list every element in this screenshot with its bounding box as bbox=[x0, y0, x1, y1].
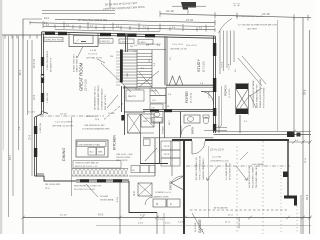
line segment bbox=[138, 23, 140, 27]
line segment bbox=[159, 24, 161, 28]
left dim line x23 bbox=[22, 19, 24, 234]
path element bbox=[192, 141, 205, 154]
line segment bbox=[307, 15, 309, 21]
svg-text:36-0: 36-0 bbox=[90, 152, 94, 154]
box bbox=[97, 148, 105, 156]
line segment bbox=[21, 216, 25, 220]
right dim x303 bbox=[302, 18, 304, 235]
line segment bbox=[169, 27, 171, 31]
line segment bbox=[42, 10, 115, 12]
svg-text:STOR: STOR bbox=[164, 154, 170, 156]
svg-text:W/L ROSG SZN: W/L ROSG SZN bbox=[45, 184, 61, 186]
svg-text:TO DESIGN DRAWING SPEC: TO DESIGN DRAWING SPEC bbox=[82, 128, 111, 131]
line segment bbox=[87, 22, 89, 26]
line segment bbox=[123, 77, 137, 79]
line segment bbox=[138, 183, 152, 196]
svg-text:2-3052 SH: 2-3052 SH bbox=[40, 123, 42, 133]
svg-text:DVL AIR: DVL AIR bbox=[100, 195, 108, 198]
svg-text:PT POST 6X6 INSIDE: PT POST 6X6 INSIDE bbox=[264, 87, 266, 108]
mud south wall bbox=[129, 212, 157, 214]
line segment bbox=[151, 50, 153, 88]
line segment bbox=[100, 169, 104, 177]
svg-text:PORCH: PORCH bbox=[224, 85, 228, 96]
bottom vertical x120 bbox=[119, 182, 121, 234]
line segment bbox=[16, 35, 18, 39]
box bbox=[77, 142, 106, 147]
line segment bbox=[166, 84, 214, 86]
line segment bbox=[141, 114, 154, 127]
line segment bbox=[137, 83, 152, 85]
locker divider bbox=[170, 141, 172, 166]
line segment bbox=[123, 71, 137, 73]
line segment bbox=[30, 23, 215, 27]
line segment bbox=[86, 184, 98, 197]
line segment bbox=[292, 140, 296, 144]
svg-text:2-3052 FX: 2-3052 FX bbox=[100, 41, 110, 43]
line segment bbox=[191, 141, 193, 154]
box bbox=[161, 141, 180, 150]
svg-text:ATTIC ABOVE: ATTIC ABOVE bbox=[214, 207, 228, 210]
line segment bbox=[11, 35, 13, 39]
svg-text:SINK: SINK bbox=[98, 152, 103, 154]
svg-text:2-3052 SH: 2-3052 SH bbox=[47, 93, 49, 103]
line segment bbox=[55, 19, 215, 22]
line segment bbox=[214, 134, 312, 136]
path element bbox=[181, 125, 191, 135]
line segment bbox=[112, 26, 114, 30]
line segment bbox=[97, 59, 105, 63]
line segment bbox=[127, 34, 129, 52]
svg-text:41'-0: 41'-0 bbox=[98, 214, 104, 217]
line segment bbox=[235, 83, 237, 115]
wall polyline bbox=[240, 95, 256, 108]
svg-text:10'-5/8: 10'-5/8 bbox=[108, 113, 115, 115]
line segment bbox=[116, 81, 120, 83]
box bbox=[149, 166, 155, 173]
box bbox=[140, 166, 149, 173]
box bbox=[150, 96, 166, 104]
line segment bbox=[124, 169, 128, 177]
line segment bbox=[42, 21, 44, 25]
line segment bbox=[72, 169, 76, 177]
svg-text:GVH L/POL PLUS: GVH L/POL PLUS bbox=[46, 40, 64, 42]
line segment bbox=[180, 112, 182, 139]
svg-text:5-0 6-8: 5-0 6-8 bbox=[222, 62, 224, 68]
line segment bbox=[287, 141, 289, 196]
box bbox=[161, 150, 180, 158]
wall polyline bbox=[69, 33, 98, 47]
line segment bbox=[301, 216, 305, 220]
west wall window circles bbox=[41, 75, 44, 78]
svg-text:8-0 x 16-0: 8-0 x 16-0 bbox=[238, 217, 241, 228]
line segment bbox=[116, 54, 120, 56]
line segment bbox=[123, 50, 137, 52]
svg-text:3'-1 1/2: 3'-1 1/2 bbox=[28, 112, 36, 114]
line segment bbox=[214, 20, 216, 26]
svg-text:(9'-0 CLG): (9'-0 CLG) bbox=[229, 88, 231, 98]
wall polyline bbox=[35, 176, 77, 181]
line segment bbox=[124, 169, 128, 177]
line segment bbox=[92, 169, 96, 177]
svg-text:USE 10x12 + SUB: USE 10x12 + SUB bbox=[116, 154, 133, 156]
svg-text:7'-0 x 9'-0: 7'-0 x 9'-0 bbox=[88, 54, 98, 56]
line segment bbox=[116, 63, 120, 65]
line segment bbox=[187, 10, 189, 15]
mud west wall bbox=[128, 181, 130, 213]
line segment bbox=[250, 88, 262, 96]
line segment bbox=[143, 111, 214, 113]
line segment bbox=[72, 168, 128, 170]
line segment bbox=[219, 31, 221, 75]
box bbox=[153, 199, 166, 207]
svg-text:23'-2 1/2: 23'-2 1/2 bbox=[34, 58, 36, 68]
box bbox=[203, 115, 209, 118]
line segment bbox=[196, 27, 198, 31]
svg-text:STUDY: STUDY bbox=[197, 59, 201, 72]
line segment bbox=[36, 117, 38, 176]
line segment bbox=[124, 86, 126, 135]
line segment bbox=[236, 166, 247, 180]
line segment bbox=[2, 34, 42, 36]
path element bbox=[201, 92, 214, 105]
svg-text:FOYER: FOYER bbox=[185, 91, 189, 103]
line segment bbox=[116, 72, 120, 74]
svg-text:21'-8: 21'-8 bbox=[305, 157, 307, 163]
line segment bbox=[128, 132, 155, 134]
line segment bbox=[137, 71, 152, 73]
line segment bbox=[215, 36, 217, 133]
west wall window segments bbox=[41, 57, 44, 66]
line segment bbox=[4, 35, 6, 39]
line segment bbox=[221, 86, 223, 126]
line segment bbox=[116, 84, 120, 86]
svg-text:OVEN IN LIGHT RAIL W/: OVEN IN LIGHT RAIL W/ bbox=[75, 162, 99, 165]
svg-text:2-6 JB: 2-6 JB bbox=[90, 50, 97, 52]
box bbox=[161, 158, 180, 166]
line segment bbox=[75, 39, 79, 44]
svg-text:TYPE X GYPSUM BD ON: TYPE X GYPSUM BD ON bbox=[200, 155, 202, 180]
line segment bbox=[214, 28, 216, 32]
svg-text:SHORT AREA: SHORT AREA bbox=[100, 199, 114, 202]
line segment bbox=[116, 51, 120, 53]
line segment bbox=[137, 77, 152, 79]
line segment bbox=[100, 169, 104, 177]
line segment bbox=[207, 166, 218, 180]
line segment bbox=[147, 26, 149, 30]
svg-text:(9'-0 CLG): (9'-0 CLG) bbox=[204, 61, 206, 72]
box bbox=[167, 199, 180, 207]
fireplace leader bbox=[77, 47, 83, 59]
left dim line x27 bbox=[27, 40, 29, 115]
svg-text:USE DESIGN TIL M/C: USE DESIGN TIL M/C bbox=[84, 125, 105, 127]
line segment bbox=[183, 140, 185, 234]
line segment bbox=[164, 36, 166, 85]
box bbox=[152, 118, 162, 123]
line segment bbox=[22, 35, 24, 39]
svg-text:12'-6: 12'-6 bbox=[34, 94, 36, 100]
line segment bbox=[101, 63, 131, 92]
line segment bbox=[308, 216, 312, 220]
line segment bbox=[129, 175, 155, 177]
svg-text:GREAT ROOM: GREAT ROOM bbox=[79, 62, 84, 91]
vertical below mud B bbox=[163, 213, 165, 234]
left dim line x32 bbox=[31, 40, 33, 176]
svg-text:2-3052: 2-3052 bbox=[120, 41, 127, 43]
svg-text:7'-0 x 12'-6 DROP: 7'-0 x 12'-6 DROP bbox=[55, 122, 73, 124]
line segment bbox=[145, 148, 157, 161]
svg-text:4'-1/2: 4'-1/2 bbox=[140, 215, 146, 217]
closet door arc bbox=[145, 197, 153, 205]
svg-text:RE ENGINEERED TRUSS: RE ENGINEERED TRUSS bbox=[98, 85, 100, 110]
line segment bbox=[180, 126, 182, 136]
svg-text:MFD SPLY: MFD SPLY bbox=[86, 116, 97, 118]
line segment bbox=[171, 140, 173, 176]
fireplace inner box bbox=[74, 36, 94, 44]
svg-text:LIN: LIN bbox=[152, 107, 156, 109]
line segment bbox=[214, 131, 312, 133]
line segment bbox=[205, 139, 289, 141]
line segment bbox=[223, 31, 225, 72]
line segment bbox=[120, 26, 122, 30]
line segment bbox=[137, 68, 152, 70]
line segment bbox=[84, 169, 88, 177]
line segment bbox=[155, 89, 160, 95]
left dim line x18 bbox=[18, 36, 20, 150]
line segment bbox=[186, 165, 290, 167]
svg-text:21'-0: 21'-0 bbox=[228, 215, 234, 217]
line segment bbox=[172, 139, 192, 141]
vertical below mud bbox=[156, 213, 158, 235]
line segment bbox=[164, 112, 166, 139]
top slanted note bbox=[103, 0, 145, 10]
line segment bbox=[40, 115, 104, 117]
line segment bbox=[137, 80, 152, 82]
svg-text:CLO: CLO bbox=[152, 100, 156, 102]
column black squares bbox=[236, 84, 248, 90]
svg-text:CABINETS OVER: CABINETS OVER bbox=[153, 195, 169, 198]
line segment bbox=[125, 34, 127, 52]
box bbox=[150, 88, 166, 96]
line segment bbox=[308, 140, 312, 144]
line segment bbox=[166, 36, 168, 85]
left dim line x8 bbox=[8, 36, 10, 217]
dash diagonal to stair wall bbox=[104, 104, 123, 120]
line segment bbox=[116, 75, 120, 77]
svg-text:NO BEARING FLAT CLG: NO BEARING FLAT CLG bbox=[94, 86, 97, 110]
porch corner black blobs bbox=[287, 132, 295, 138]
line segment bbox=[128, 114, 141, 133]
line segment bbox=[236, 89, 248, 109]
svg-text:24-3: 24-3 bbox=[44, 17, 49, 20]
path element bbox=[171, 176, 184, 183]
svg-text:SPEC NOTE: SPEC NOTE bbox=[116, 160, 128, 162]
line segment bbox=[280, 168, 282, 234]
svg-text:30'-6: 30'-6 bbox=[304, 89, 307, 95]
svg-text:10x12 BEAM: 10x12 BEAM bbox=[252, 163, 264, 166]
line segment bbox=[140, 163, 168, 165]
svg-text:OHD ASSEMBLY PLAN: OHD ASSEMBLY PLAN bbox=[79, 143, 101, 146]
svg-text:4+4 SLAB ON GRD: 4+4 SLAB ON GRD bbox=[225, 162, 228, 180]
svg-text:14-10: 14-10 bbox=[135, 89, 141, 91]
line segment bbox=[81, 41, 86, 43]
svg-text:KITCHEN: KITCHEN bbox=[113, 135, 117, 150]
line segment bbox=[37, 173, 45, 175]
line segment bbox=[92, 169, 96, 177]
line segment bbox=[137, 53, 152, 55]
box bbox=[88, 148, 96, 156]
line segment bbox=[54, 24, 56, 28]
line segment bbox=[300, 195, 302, 234]
svg-text:24'-1/2: 24'-1/2 bbox=[60, 114, 67, 116]
stair thick wall bar bbox=[120, 50, 123, 83]
line segment bbox=[128, 114, 141, 133]
svg-text:TRUSS BRG WALL SET: TRUSS BRG WALL SET bbox=[255, 165, 258, 188]
line segment bbox=[238, 58, 262, 86]
line segment bbox=[143, 109, 214, 111]
box bbox=[126, 90, 144, 101]
svg-text:AZEK TRIM BOARD SET: AZEK TRIM BOARD SET bbox=[256, 84, 259, 108]
wall polyline bbox=[245, 178, 248, 181]
line segment bbox=[29, 35, 31, 39]
svg-text:2'-0: 2'-0 bbox=[295, 140, 298, 142]
line segment bbox=[42, 24, 44, 28]
line segment bbox=[96, 169, 100, 177]
box bbox=[138, 40, 153, 45]
line segment bbox=[288, 141, 311, 143]
foyer south wall dark segments bbox=[150, 109, 159, 112]
line segment bbox=[138, 26, 140, 30]
svg-text:7'-0 x 12'-6: 7'-0 x 12'-6 bbox=[172, 44, 183, 46]
line segment bbox=[55, 30, 160, 32]
svg-text:CLO: CLO bbox=[134, 191, 136, 196]
svg-text:27'-10: 27'-10 bbox=[186, 18, 194, 22]
line segment bbox=[104, 169, 108, 177]
box bbox=[99, 39, 113, 44]
line segment bbox=[239, 115, 241, 133]
line segment bbox=[139, 72, 152, 87]
line segment bbox=[286, 216, 290, 220]
line segment bbox=[116, 78, 120, 80]
box bbox=[119, 39, 134, 44]
line segment bbox=[160, 14, 311, 18]
line segment bbox=[159, 27, 161, 31]
svg-text:DBL 2X10 HDR: DBL 2X10 HDR bbox=[146, 44, 161, 46]
line segment bbox=[123, 56, 137, 58]
svg-text:6R DN: 6R DN bbox=[145, 118, 152, 120]
box bbox=[150, 104, 163, 110]
svg-text:16-0 OHD: 16-0 OHD bbox=[195, 222, 197, 232]
line segment bbox=[172, 5, 206, 7]
svg-text:DN: DN bbox=[110, 56, 114, 58]
east wall black segments bbox=[213, 43, 216, 56]
line segment bbox=[76, 179, 129, 181]
right dim x294 bbox=[293, 17, 295, 131]
line segment bbox=[159, 11, 161, 17]
svg-text:3-1 2-8: 3-1 2-8 bbox=[229, 64, 231, 70]
line segment bbox=[116, 60, 120, 62]
line segment bbox=[116, 169, 120, 177]
line segment bbox=[23, 217, 311, 219]
line segment bbox=[72, 175, 128, 177]
svg-text:30'-6: 30'-6 bbox=[306, 194, 309, 200]
line segment bbox=[190, 209, 288, 211]
bottom secondary line bbox=[96, 225, 311, 227]
line segment bbox=[138, 183, 152, 196]
svg-text:41'-10: 41'-10 bbox=[166, 9, 174, 13]
line segment bbox=[301, 216, 305, 220]
svg-text:DINING: DINING bbox=[62, 148, 66, 161]
line segment bbox=[125, 111, 146, 113]
line segment bbox=[143, 137, 214, 139]
svg-text:CRYSTAL 4'0 JB OPT: CRYSTAL 4'0 JB OPT bbox=[52, 125, 74, 128]
line segment bbox=[308, 216, 312, 220]
svg-text:5'-1/2: 5'-1/2 bbox=[165, 223, 171, 225]
svg-text:PANTRY: PANTRY bbox=[128, 95, 137, 98]
svg-text:INSTALL FIREWALL 5/8: INSTALL FIREWALL 5/8 bbox=[195, 157, 198, 180]
svg-text:TO BEAR OUT WALLS: TO BEAR OUT WALLS bbox=[101, 88, 104, 110]
line segment bbox=[123, 83, 137, 85]
line segment bbox=[218, 96, 220, 133]
line segment bbox=[233, 31, 235, 63]
svg-text:TRUSS UPPER: TRUSS UPPER bbox=[116, 157, 131, 159]
line segment bbox=[34, 117, 36, 176]
svg-text:BATH: BATH bbox=[191, 127, 195, 134]
line segment bbox=[213, 36, 215, 133]
svg-text:12' WALL/CLG (GREAT RM): 12' WALL/CLG (GREAT RM) bbox=[78, 19, 107, 22]
line segment bbox=[43, 112, 48, 114]
wall polyline bbox=[169, 76, 176, 86]
line segment bbox=[236, 13, 238, 19]
box bbox=[76, 140, 108, 157]
box bbox=[131, 166, 140, 173]
attic leader curve bbox=[219, 19, 233, 34]
line segment bbox=[137, 65, 152, 67]
line segment bbox=[121, 86, 123, 112]
line segment bbox=[216, 127, 227, 129]
right dim x309 bbox=[309, 30, 311, 234]
line segment bbox=[84, 169, 88, 177]
line segment bbox=[123, 74, 137, 76]
wall polyline bbox=[207, 178, 210, 181]
line segment bbox=[205, 28, 207, 32]
line segment bbox=[159, 122, 161, 164]
svg-text:6-0: 6-0 bbox=[235, 69, 237, 72]
svg-text:16R: 16R bbox=[127, 73, 129, 77]
line segment bbox=[248, 216, 252, 220]
line segment bbox=[182, 27, 184, 31]
line segment bbox=[230, 31, 232, 66]
line segment bbox=[226, 31, 228, 69]
line segment bbox=[72, 25, 74, 29]
svg-text:(9'-0 CLG): (9'-0 CLG) bbox=[191, 93, 193, 103]
line segment bbox=[123, 86, 137, 88]
garage leader bottom bbox=[192, 213, 204, 234]
svg-text:CRYSTAL 4'0 JB: CRYSTAL 4'0 JB bbox=[170, 48, 187, 51]
line segment bbox=[108, 169, 112, 177]
line segment bbox=[87, 25, 89, 29]
line segment bbox=[236, 89, 248, 109]
svg-text:DN: DN bbox=[130, 46, 134, 48]
line segment bbox=[116, 69, 120, 71]
line segment bbox=[104, 169, 108, 177]
box bbox=[44, 37, 63, 42]
line segment bbox=[182, 24, 184, 28]
line segment bbox=[137, 59, 152, 61]
line segment bbox=[112, 169, 116, 177]
dim line x71 bbox=[71, 117, 73, 196]
line segment bbox=[139, 71, 159, 87]
svg-text:PULL DN ATTIC STAIR: PULL DN ATTIC STAIR bbox=[252, 167, 255, 188]
